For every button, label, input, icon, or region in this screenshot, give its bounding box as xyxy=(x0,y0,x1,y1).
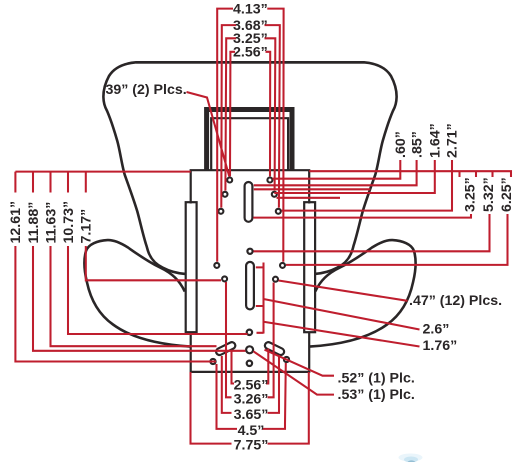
center hole upper xyxy=(247,249,252,254)
left wing xyxy=(84,240,190,347)
tongue outer xyxy=(207,110,292,171)
dim 2.56 top extension lines xyxy=(230,58,270,177)
dim .85 line xyxy=(254,160,417,185)
dim 6.25 line xyxy=(286,214,508,265)
hole A right (.39) xyxy=(267,178,272,183)
dim 3.25 bracket xyxy=(226,38,275,44)
svg-text:3.65”: 3.65” xyxy=(234,407,269,423)
dim 11.88 line xyxy=(33,246,245,351)
svg-text:1.76”: 1.76” xyxy=(423,338,458,354)
dim 4.13 bracket xyxy=(217,9,283,15)
hole E right xyxy=(273,277,278,282)
right rail xyxy=(304,202,315,332)
hole B right xyxy=(272,192,277,197)
tongue inner xyxy=(211,118,288,170)
dim 3.25 right line xyxy=(253,214,471,218)
svg-text:.47” (12) Plcs.: .47” (12) Plcs. xyxy=(409,293,502,309)
dim 3.26 bracket xyxy=(226,392,274,398)
leader .47 plcs xyxy=(279,281,408,301)
right datum ticks xyxy=(460,171,493,177)
dim 4.13 extension lines xyxy=(217,15,283,262)
dim 2.56 top bracket xyxy=(230,52,270,58)
svg-text:.39” (2) Plcs.: .39” (2) Plcs. xyxy=(102,82,187,98)
svg-text:4.13”: 4.13” xyxy=(233,1,268,17)
bottom small hole right xyxy=(284,357,289,362)
center hole large (.53) xyxy=(246,346,253,353)
svg-text:1.64”: 1.64” xyxy=(428,123,444,158)
hole C right xyxy=(276,209,281,214)
dim 2.71 line xyxy=(282,160,453,211)
hole C left xyxy=(218,209,223,214)
lower slot bracket xyxy=(256,263,264,334)
svg-text:7.75”: 7.75” xyxy=(234,438,269,454)
leader .39 plcs xyxy=(187,92,230,177)
svg-text:.60”: .60” xyxy=(393,131,409,158)
dim 12.61 line xyxy=(15,246,216,362)
dim 3.25 extension lines xyxy=(225,44,275,191)
dim 7.75 bracket xyxy=(191,438,309,444)
dim 2.56 bottom extensions xyxy=(232,349,269,378)
left rail xyxy=(186,202,197,332)
leader 2.6 xyxy=(264,299,420,330)
dim 2.56 bottom bracket xyxy=(232,378,269,384)
dim 1.64 line xyxy=(274,160,435,193)
dim 3.68 extension lines xyxy=(221,31,279,208)
seat back outline xyxy=(103,62,364,274)
svg-text:6.25”: 6.25” xyxy=(499,177,515,212)
lower slot xyxy=(246,262,254,310)
dim 5.32 line xyxy=(254,214,490,251)
svg-text:.52” (1) Plc.: .52” (1) Plc. xyxy=(338,371,415,387)
right datum line xyxy=(309,171,511,177)
svg-text:5.32”: 5.32” xyxy=(481,177,497,212)
dim .60 line xyxy=(273,160,401,179)
leader .53 plc xyxy=(253,351,334,394)
partial blue logo bottom xyxy=(399,454,423,462)
svg-text:12.61”: 12.61” xyxy=(8,201,24,244)
dim 4.5 extensions xyxy=(217,363,286,424)
dim 3.68 bracket xyxy=(222,25,280,31)
leader 1.76 xyxy=(264,322,420,347)
dim 3.26 extensions xyxy=(226,282,274,392)
dim 10.73 line xyxy=(68,246,248,334)
dim 7.75 extensions xyxy=(191,372,309,438)
hole E left xyxy=(222,276,227,281)
svg-text:2.71”: 2.71” xyxy=(445,123,461,158)
svg-text:2.56”: 2.56” xyxy=(233,45,268,61)
svg-text:7.17”: 7.17” xyxy=(79,209,95,244)
dim 3.65 extensions xyxy=(222,355,279,408)
center hole mid xyxy=(247,330,252,335)
svg-text:11.63”: 11.63” xyxy=(43,202,59,244)
svg-text:3.25”: 3.25” xyxy=(463,177,479,212)
bottom small hole left xyxy=(210,359,215,364)
svg-text:3.26”: 3.26” xyxy=(234,391,269,407)
svg-text:11.88”: 11.88” xyxy=(26,202,42,244)
hole B left xyxy=(223,192,228,197)
left datum ticks xyxy=(15,172,85,193)
hole A left (.39) xyxy=(227,178,232,183)
center hole bottom xyxy=(247,361,252,366)
svg-text:2.6”: 2.6” xyxy=(423,322,450,338)
svg-text:.85”: .85” xyxy=(409,131,425,158)
upper slot xyxy=(245,182,253,222)
left datum line xyxy=(15,171,190,173)
hole D right xyxy=(280,263,285,268)
slanted oval slot right (.52) xyxy=(264,341,285,356)
hole D left xyxy=(214,263,219,268)
dim 3.65 bracket xyxy=(222,408,279,413)
mounting plate xyxy=(191,170,310,203)
right wing xyxy=(310,240,416,347)
slanted oval slot left xyxy=(215,341,236,356)
svg-text:.53” (1) Plc.: .53” (1) Plc. xyxy=(338,387,415,403)
svg-text:10.73”: 10.73” xyxy=(61,201,77,244)
dim 11.63 line xyxy=(51,246,217,346)
dim 4.5 bracket xyxy=(217,424,286,429)
short line hole B lower xyxy=(254,189,370,198)
leader .52 plc xyxy=(265,350,335,376)
dim 7.17 line xyxy=(86,246,221,280)
